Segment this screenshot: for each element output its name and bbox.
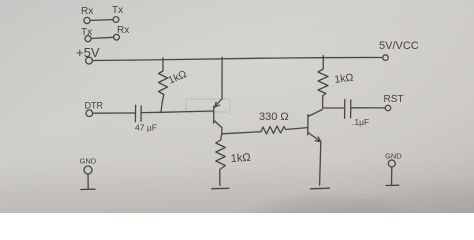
wire node to 330Ω resistor <box>222 132 261 134</box>
svg-text:+5V: +5V <box>76 45 100 60</box>
svg-text:GND: GND <box>80 157 97 166</box>
svg-text:1kΩ: 1kΩ <box>230 152 251 165</box>
node +5V terminal <box>76 45 100 64</box>
ground (under Q2 emitter) <box>311 187 330 190</box>
node Tx (top row right terminal) <box>112 5 123 22</box>
ground (under R2) <box>212 187 229 189</box>
svg-text:DTR: DTR <box>85 101 104 111</box>
node Rx (top row left terminal) <box>81 6 93 24</box>
capacitor C2 0.1uF <box>345 100 370 128</box>
wire Rx to Tx <box>90 19 113 22</box>
svg-text:Rx: Rx <box>117 25 129 36</box>
resistor R3 1kΩ (rail to Q2 collector) <box>318 56 354 108</box>
resistor R1 1kΩ (from rail to DTR line) <box>159 58 189 113</box>
resistor R2 1kΩ (Q1 collector to ground) <box>216 134 251 186</box>
wire C2 to RST <box>351 107 385 109</box>
node Rx (second row right terminal) <box>114 25 130 40</box>
ground GND (left) <box>80 157 97 190</box>
wire Q1 collector to node <box>221 128 223 134</box>
resistor R4 330Ω <box>259 111 289 134</box>
wire R3/Q2-collector junction to capacitor C2 <box>323 107 344 109</box>
svg-text:47 µF: 47 µF <box>135 123 157 133</box>
svg-text:330 Ω: 330 Ω <box>259 111 289 123</box>
wire +5V supply rail <box>93 57 383 60</box>
svg-text:5V/VCC: 5V/VCC <box>379 40 419 52</box>
wire C1 to Q1 base <box>142 111 213 113</box>
svg-text:Tx: Tx <box>81 27 92 38</box>
wire 330Ω to Q2 base <box>286 128 308 130</box>
svg-text:Tx: Tx <box>112 5 123 16</box>
transistor Q2 (NPN) <box>308 110 323 142</box>
ground GND (right) <box>385 152 402 186</box>
svg-text:Rx: Rx <box>81 6 93 17</box>
svg-text:GND: GND <box>385 152 402 161</box>
svg-text:.1µF: .1µF <box>352 117 369 127</box>
wire DTR to capacitor C1 <box>93 112 135 114</box>
transistor Q1 (PNP) <box>214 99 222 128</box>
wire Q2 emitter to ground <box>320 142 321 185</box>
svg-text:RST: RST <box>384 94 404 105</box>
node Tx (second row left terminal) <box>81 27 92 42</box>
node 5V/VCC terminal <box>379 40 419 60</box>
wire Q1 emitter to rail <box>221 57 223 98</box>
capacitor C1 47uF <box>135 105 157 132</box>
wire Tx to Rx <box>91 37 114 38</box>
node RST terminal <box>384 94 404 111</box>
node DTR terminal <box>85 101 104 117</box>
